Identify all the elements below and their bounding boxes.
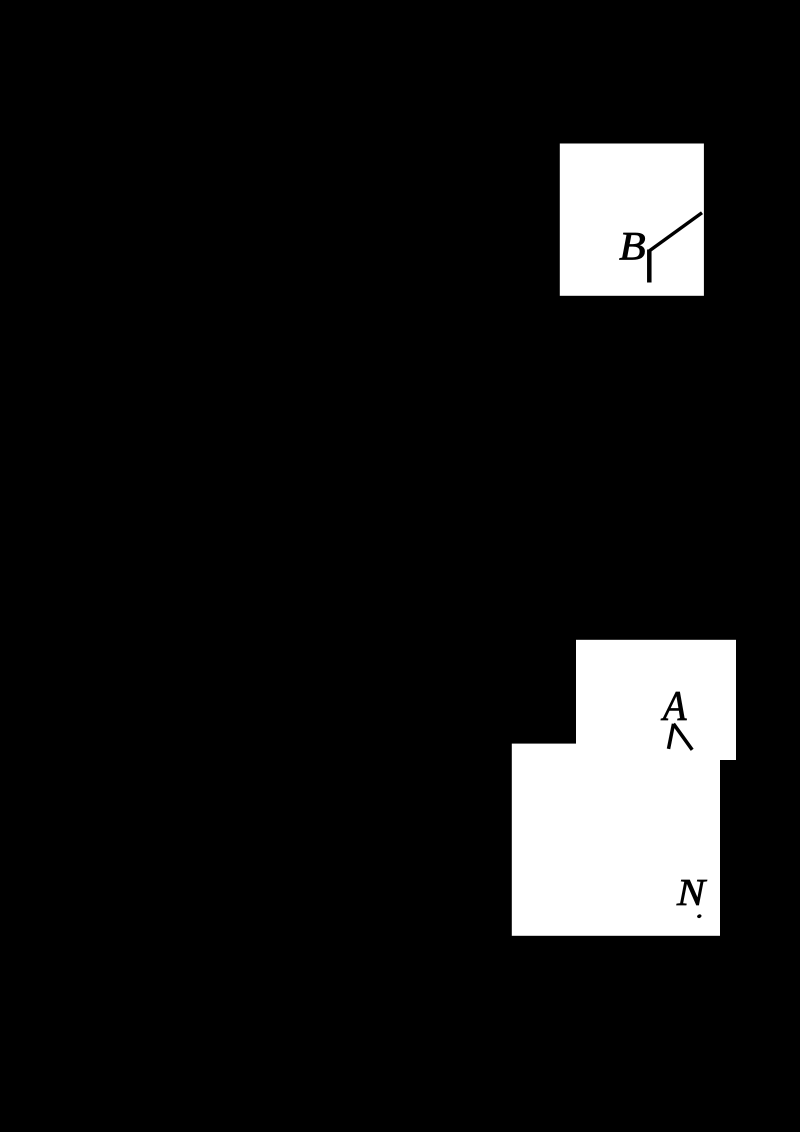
label A [660,684,687,730]
label N [676,872,708,914]
label B [619,224,646,269]
vertex caret below A, right stroke [674,724,693,750]
svg-text:A: A [660,684,687,730]
edge at vertex B, diagonal segment [650,213,703,251]
svg-text:N: N [676,872,708,914]
white patch 2 (middle, around point A) [576,640,736,760]
edge at vertex B, vertical segment [647,250,652,283]
white patch 3 (bottom, around point N) [512,744,720,936]
dot below N [696,914,702,919]
white patch 1 (top, around point B) [560,144,704,296]
svg-text:B: B [619,224,646,269]
vertex caret below A, left stroke [669,724,674,749]
